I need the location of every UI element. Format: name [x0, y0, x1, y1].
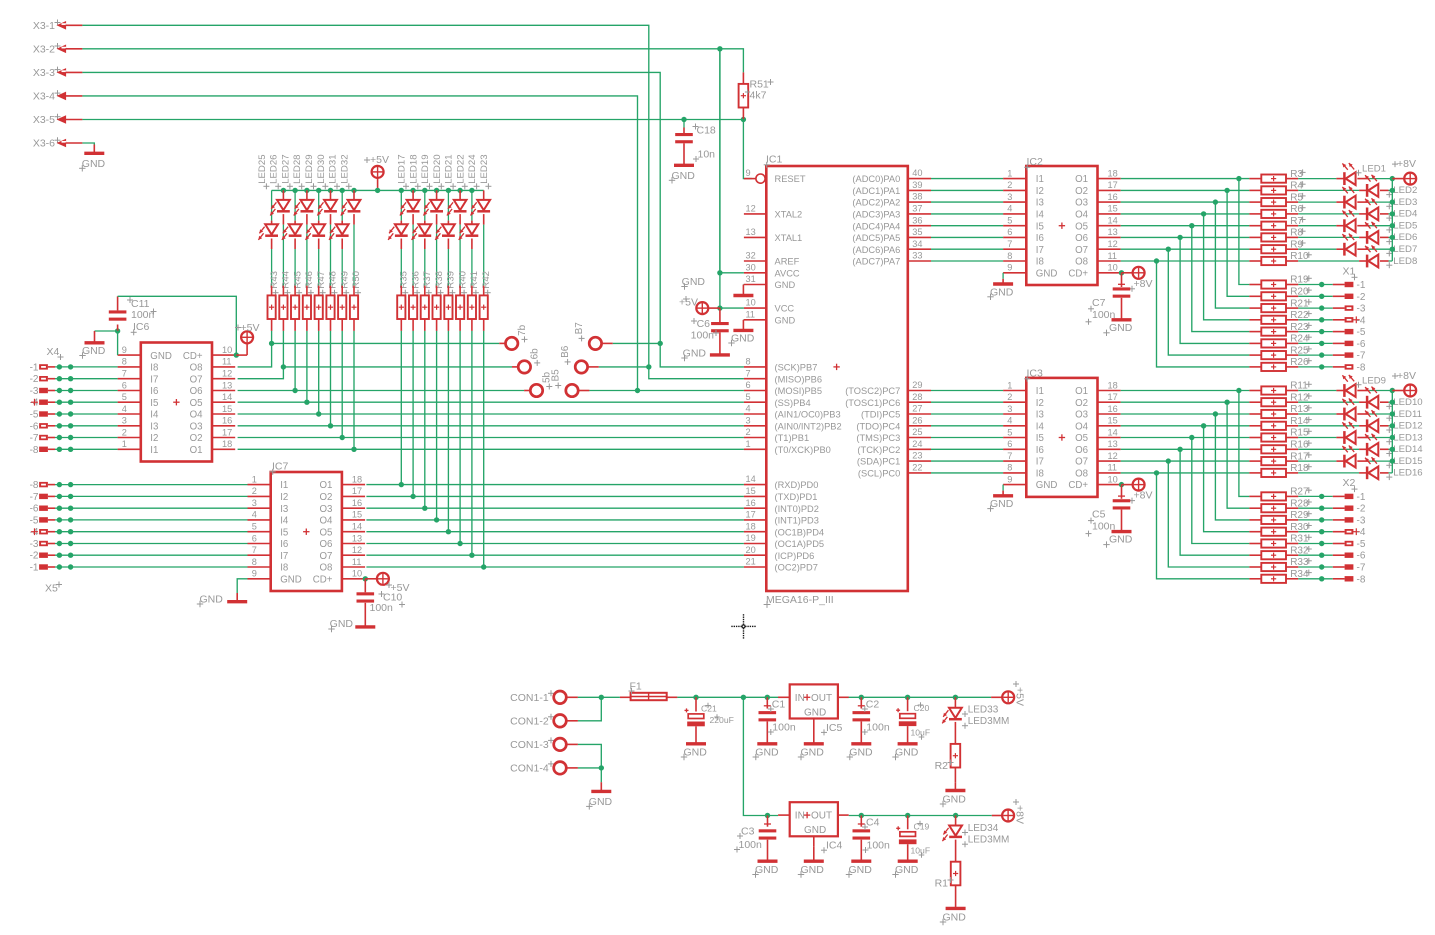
svg-text:-8: -8: [1357, 574, 1366, 585]
svg-text:100n: 100n: [739, 839, 763, 851]
resistor R5: [1249, 192, 1305, 206]
wire R47 down: [318, 331, 320, 414]
wire net IC7 O7/PD6: [366, 554, 744, 556]
svg-text:R42: R42: [481, 271, 492, 289]
wire 6b pad wire: [283, 366, 512, 368]
svg-text:GND: GND: [775, 280, 796, 290]
svg-text:-2: -2: [30, 551, 39, 562]
svg-text:4: 4: [746, 404, 751, 414]
label LED15: [1386, 456, 1422, 468]
svg-text:100n: 100n: [772, 722, 796, 734]
capacitor C21 220uF: [685, 697, 734, 744]
svg-text:IC1: IC1: [766, 154, 783, 166]
svg-text:B5: B5: [551, 369, 562, 382]
svg-text:X3-5: X3-5: [33, 114, 55, 126]
label LED12: [1386, 421, 1422, 433]
ground IC5: [798, 729, 824, 760]
connector pin X4-1: [30, 362, 118, 373]
wire net PA3: [931, 213, 1003, 215]
junction O4 drop: [1201, 211, 1206, 216]
LED LED31: [329, 190, 349, 240]
svg-text:18: 18: [1108, 380, 1118, 390]
svg-text:14: 14: [746, 474, 756, 484]
wire wire O2 to R28: [1227, 402, 1249, 508]
svg-text:C7: C7: [1092, 297, 1106, 309]
svg-text:LED3MM: LED3MM: [968, 835, 1010, 846]
wire net O2/PB1: [238, 437, 744, 439]
svg-text:OUT: OUT: [811, 693, 832, 704]
svg-text:I4: I4: [150, 410, 159, 421]
svg-text:O3: O3: [190, 421, 203, 432]
junction bus LED32: [351, 188, 356, 193]
capacitor C3 100n: [734, 816, 776, 862]
wire LED11 anode: [1357, 413, 1392, 415]
svg-text:O4: O4: [1075, 210, 1089, 221]
label R36: [410, 271, 421, 296]
wire X3-2 to R51: [720, 49, 744, 73]
svg-text:7: 7: [122, 369, 127, 379]
wire net IC7 O5/PD4: [366, 531, 744, 533]
+8V supply output: [992, 799, 1026, 824]
LED LED4: [1365, 198, 1378, 220]
wire R13 to LED11: [1286, 413, 1344, 415]
svg-text:27: 27: [912, 404, 922, 414]
label LED28: [292, 154, 305, 189]
svg-text:(ADC7)PA7: (ADC7)PA7: [852, 257, 900, 267]
svg-text:I1: I1: [1036, 386, 1044, 397]
wire net O5 to R15: [1121, 437, 1250, 439]
wire R4 to LED2: [1286, 189, 1367, 191]
junction bus LED20: [434, 188, 439, 193]
svg-text:8: 8: [1007, 463, 1012, 473]
+5V supply VCC: [679, 296, 720, 314]
svg-text:O7: O7: [319, 551, 332, 562]
+8V supply C5: [1122, 479, 1153, 504]
wire LED13 anode: [1357, 437, 1392, 439]
LED LED11: [1342, 398, 1355, 420]
wire R49 down: [341, 331, 343, 438]
label LED21: [444, 154, 457, 189]
svg-text:X4: X4: [47, 346, 60, 358]
label LED17: [397, 154, 410, 189]
svg-text:CD+: CD+: [1068, 268, 1088, 279]
svg-text:I6: I6: [1036, 445, 1044, 456]
capacitor C5 100n: [1086, 485, 1131, 537]
junction O5 drop: [1189, 435, 1194, 440]
label LED4: [1386, 209, 1418, 221]
jumper pad 6b: [512, 348, 541, 373]
connector pin X3-5: [33, 114, 83, 126]
label LED5: [1386, 221, 1417, 233]
svg-text:14: 14: [222, 392, 232, 402]
svg-text:16: 16: [1108, 404, 1118, 414]
svg-text:7: 7: [252, 545, 257, 555]
LED LED25: [258, 190, 278, 240]
svg-text:-7: -7: [30, 492, 39, 503]
svg-text:O2: O2: [1075, 186, 1088, 197]
svg-text:IC3: IC3: [1027, 368, 1044, 380]
label R47: [316, 271, 327, 296]
resistor R12: [1249, 392, 1311, 406]
junction bus: [1390, 400, 1395, 405]
connector pin CON1-2: [510, 714, 578, 728]
svg-text:+8V: +8V: [1397, 370, 1416, 382]
svg-text:-6: -6: [30, 421, 39, 432]
connector pin CON1-3: [510, 737, 578, 751]
svg-text:18: 18: [1108, 168, 1118, 178]
LED LED27: [282, 190, 302, 240]
junction C11/GND: [115, 328, 120, 333]
svg-text:26: 26: [912, 415, 922, 425]
svg-text:(SCL)PC0: (SCL)PC0: [858, 469, 900, 479]
svg-text:O1: O1: [190, 445, 203, 456]
wire net O4/PB3: [238, 413, 744, 415]
wire R43 to IC6 O8: [238, 331, 272, 367]
LED LED8: [1365, 245, 1378, 267]
svg-text:IN: IN: [795, 693, 805, 704]
LED LED18: [400, 190, 420, 215]
svg-text:O5: O5: [319, 527, 332, 538]
svg-text:8: 8: [746, 357, 751, 367]
svg-text:15: 15: [1108, 416, 1118, 426]
junction +5V stem: [375, 188, 380, 193]
svg-text:10: 10: [1108, 474, 1118, 484]
svg-text:17: 17: [746, 510, 756, 520]
wire LED6 anode: [1380, 236, 1392, 238]
wire net PC4: [931, 425, 1003, 427]
svg-text:5: 5: [1007, 427, 1012, 437]
svg-text:(AIN1/OC0)PB3: (AIN1/OC0)PB3: [775, 410, 841, 420]
wire IC6 pin9 gnd wire: [117, 331, 119, 355]
svg-text:3: 3: [122, 416, 127, 426]
svg-text:100n: 100n: [867, 840, 891, 852]
resistor R31: [1249, 534, 1311, 548]
ground C3: [752, 861, 778, 878]
svg-text:C4: C4: [866, 817, 880, 829]
svg-text:12: 12: [352, 545, 362, 555]
svg-text:13: 13: [352, 533, 362, 543]
wire net O2 to R12: [1121, 401, 1250, 403]
svg-text:AREF: AREF: [775, 257, 800, 267]
label R50: [351, 271, 362, 296]
junction R35: [399, 482, 404, 487]
svg-text:+5V: +5V: [679, 297, 698, 309]
svg-text:-3: -3: [1357, 304, 1366, 315]
svg-text:6: 6: [746, 380, 751, 390]
wire CON1-3 wire: [578, 744, 601, 782]
svg-text:I3: I3: [150, 421, 158, 432]
wire R17 to LED15: [1286, 460, 1344, 462]
svg-text:(TOSC2)PC7: (TOSC2)PC7: [845, 386, 900, 396]
LED LED1: [1342, 163, 1355, 185]
resistor R10: [1249, 251, 1311, 265]
junction O7 drop: [1166, 458, 1171, 463]
svg-text:LED1: LED1: [1362, 163, 1386, 174]
svg-text:(TDO)PC4: (TDO)PC4: [856, 421, 900, 431]
svg-text:16: 16: [746, 498, 756, 508]
junction O3 drop: [1213, 199, 1218, 204]
resistor R36: [409, 286, 417, 331]
svg-text:29: 29: [912, 380, 922, 390]
svg-text:+8V: +8V: [1014, 805, 1026, 824]
label R46: [304, 271, 315, 296]
label R48: [328, 271, 339, 296]
junction CD+ C7: [1119, 270, 1124, 275]
LED LED13: [1342, 422, 1355, 444]
svg-text:LED10: LED10: [1393, 397, 1422, 408]
svg-text:9: 9: [1007, 474, 1012, 484]
wire R9 to LED7: [1286, 248, 1344, 250]
wire LED5 anode: [1357, 225, 1392, 227]
svg-text:(OC1B)PD4: (OC1B)PD4: [775, 527, 825, 537]
svg-text:LED7: LED7: [1393, 244, 1417, 255]
wire B6 to PB6: [649, 367, 744, 379]
svg-text:LED17: LED17: [397, 154, 408, 183]
connector pin X5-8: [30, 480, 248, 491]
label IC3: [1024, 368, 1043, 382]
IC IC3 pins: [1003, 380, 1121, 491]
wire X3-2 to AVCC node: [82, 48, 720, 50]
+5V supply IC6: [235, 322, 259, 355]
wire wire O5 to R23: [1192, 226, 1250, 332]
svg-text:R1: R1: [935, 878, 949, 890]
svg-text:CD+: CD+: [1068, 480, 1088, 491]
junction IC6 CD+: [234, 352, 239, 357]
svg-text:100n: 100n: [131, 309, 155, 321]
svg-text:I8: I8: [1036, 257, 1044, 268]
LED LED29: [306, 190, 326, 240]
LED LED17: [388, 190, 408, 240]
svg-text:1: 1: [1007, 380, 1012, 390]
junction bus LED28: [304, 188, 309, 193]
svg-text:32: 32: [746, 251, 756, 261]
junction rail1: [953, 695, 958, 700]
svg-text:GND: GND: [1109, 534, 1133, 546]
svg-text:LED3: LED3: [1393, 197, 1417, 208]
wire LED9 anode: [1357, 390, 1392, 392]
svg-text:O1: O1: [1075, 174, 1088, 185]
ground GND31: [681, 276, 753, 296]
junction 6b tap: [281, 364, 286, 369]
wire net IC7 O2/PD1: [366, 495, 744, 497]
resistor R24: [1249, 334, 1311, 348]
wire CON1-2 wire: [578, 697, 601, 721]
junction C18 tap: [681, 117, 686, 122]
wire R39 down: [447, 331, 449, 532]
wire B7 wire: [613, 342, 660, 344]
svg-text:CON1-4: CON1-4: [510, 763, 549, 775]
IC IC1 right pins: [845, 168, 931, 478]
ground C2: [847, 744, 873, 760]
jumper pad B5: [551, 369, 590, 397]
svg-text:+8V: +8V: [1134, 490, 1153, 502]
wire R18 to LED16: [1286, 472, 1367, 474]
svg-text:14: 14: [1108, 427, 1118, 437]
ground IC4: [798, 847, 824, 878]
junction AVCC: [717, 270, 722, 275]
label LED2: [1386, 185, 1417, 197]
label LED10: [1386, 397, 1422, 409]
junction O1 drop: [1236, 176, 1241, 181]
svg-text:R46: R46: [304, 271, 315, 289]
svg-text:(T1)PB1: (T1)PB1: [775, 433, 810, 443]
label LED31: [328, 154, 341, 189]
junction bus: [1390, 247, 1395, 252]
ground C19: [892, 861, 918, 878]
connector pin X3-2: [33, 43, 83, 55]
svg-text:-2: -2: [30, 374, 39, 385]
svg-text:10: 10: [222, 345, 232, 355]
svg-text:4: 4: [122, 404, 127, 414]
wire wire O1 to R19: [1239, 179, 1250, 285]
svg-text:XTAL1: XTAL1: [775, 233, 803, 243]
IC IC1 MEGA16 body: [766, 166, 908, 591]
svg-text:GND: GND: [330, 618, 354, 630]
svg-text:1: 1: [252, 474, 257, 484]
svg-text:220uF: 220uF: [710, 715, 734, 725]
svg-text:-5: -5: [30, 410, 39, 421]
svg-text:LED34: LED34: [968, 823, 999, 834]
ground C7: [1103, 320, 1132, 336]
wire LED22 cathode: [459, 214, 461, 286]
LED LED33: [942, 697, 1009, 728]
wire net O1 to R3: [1121, 178, 1250, 180]
junction bus: [1390, 199, 1395, 204]
LED LED7: [1342, 234, 1355, 256]
svg-text:2: 2: [252, 486, 257, 496]
junction bus: [1390, 388, 1395, 393]
IC IC7 pins: [248, 474, 366, 585]
svg-text:LED4: LED4: [1393, 209, 1418, 220]
resistor R22: [1249, 310, 1311, 324]
junction rail1: [905, 695, 910, 700]
svg-text:+5V: +5V: [370, 154, 389, 166]
label IC4: [821, 840, 843, 854]
svg-text:(TXD)PD1: (TXD)PD1: [775, 492, 818, 502]
svg-text:R38: R38: [434, 271, 445, 289]
connector pin X4-7: [30, 433, 118, 444]
label LED13: [1386, 432, 1422, 444]
resistor R33: [1249, 557, 1311, 571]
LED LED22: [447, 190, 467, 215]
svg-text:2: 2: [746, 427, 751, 437]
svg-text:-3: -3: [30, 539, 39, 550]
label R38: [434, 271, 445, 296]
resistor R32: [1249, 545, 1311, 559]
svg-text:100n: 100n: [866, 722, 890, 734]
svg-text:-3: -3: [30, 386, 39, 397]
resistor R2: [935, 722, 961, 783]
ground C6: [681, 348, 730, 362]
svg-text:8: 8: [252, 557, 257, 567]
svg-text:I5: I5: [1036, 433, 1044, 444]
svg-text:-7: -7: [30, 433, 39, 444]
svg-text:(TMS)PC3: (TMS)PC3: [856, 433, 900, 443]
svg-text:-8: -8: [1357, 362, 1366, 373]
junction R48: [328, 423, 333, 428]
junction R46: [304, 400, 309, 405]
label LED1: [1356, 163, 1387, 175]
svg-text:RESET: RESET: [775, 174, 806, 184]
svg-text:IC6: IC6: [133, 321, 150, 333]
resistor R29: [1249, 510, 1311, 524]
connector pin X4-4: [30, 398, 118, 409]
wire net PC1: [931, 460, 1003, 462]
svg-text:-1: -1: [1357, 492, 1366, 503]
svg-text:O3: O3: [1075, 410, 1088, 421]
svg-text:(INT0)PD2: (INT0)PD2: [775, 504, 819, 514]
wire LED20 cathode: [436, 214, 438, 286]
svg-text:(ADC6)PA6: (ADC6)PA6: [852, 245, 900, 255]
svg-text:O4: O4: [1075, 421, 1089, 432]
svg-text:LED26: LED26: [269, 154, 280, 183]
svg-text:(AIN0/INT2)PB2: (AIN0/INT2)PB2: [775, 421, 842, 431]
wire LED10 anode: [1380, 401, 1392, 403]
wire wire O1 to R27: [1239, 391, 1250, 497]
junction 7b tap: [269, 341, 274, 346]
svg-text:LED21: LED21: [444, 154, 455, 183]
svg-text:R41: R41: [469, 271, 480, 289]
svg-text:I5: I5: [150, 398, 158, 409]
junction bus: [1390, 423, 1395, 428]
wire LED7 anode: [1357, 248, 1392, 250]
svg-text:LED29: LED29: [304, 154, 315, 183]
svg-text:18: 18: [746, 521, 756, 531]
junction R42: [481, 564, 486, 569]
svg-text:9: 9: [746, 168, 751, 178]
connector pin X5-6: [30, 504, 248, 515]
resistor R38: [433, 286, 441, 331]
svg-text:O8: O8: [1075, 257, 1088, 268]
svg-text:(MOSI)PB5: (MOSI)PB5: [775, 386, 823, 396]
ground C4: [846, 861, 872, 878]
wire X3-4 to B5 node: [82, 96, 637, 391]
svg-text:I8: I8: [150, 363, 158, 374]
svg-text:-8: -8: [30, 480, 39, 491]
svg-text:-1: -1: [30, 563, 39, 574]
svg-text:GND: GND: [1036, 268, 1058, 279]
resistor R30: [1249, 522, 1311, 536]
svg-text:O1: O1: [1075, 386, 1088, 397]
ground X3-6: [79, 145, 105, 172]
resistor R25: [1249, 345, 1311, 359]
+8V supply bank: [1392, 370, 1416, 397]
wire LED2 anode: [1380, 189, 1392, 191]
wire +5V vertical: [719, 273, 721, 308]
junction bus LED21: [446, 188, 451, 193]
wire R35 down: [400, 331, 402, 485]
svg-text:21: 21: [746, 557, 756, 567]
svg-text:LED8: LED8: [1393, 256, 1417, 267]
svg-text:10: 10: [746, 298, 756, 308]
jumper pad 7b: [499, 324, 528, 349]
svg-text:10: 10: [1108, 263, 1118, 273]
svg-text:6: 6: [1007, 227, 1012, 237]
wire R44 to IC6 O7: [238, 331, 284, 379]
svg-text:O2: O2: [190, 433, 203, 444]
svg-text:(OC1A)PD5: (OC1A)PD5: [775, 539, 825, 549]
svg-text:GND: GND: [1036, 480, 1058, 491]
wire R11 to LED9: [1286, 390, 1344, 392]
svg-text:25: 25: [912, 427, 922, 437]
svg-text:2: 2: [122, 427, 127, 437]
label R41: [469, 271, 480, 296]
label R42: [481, 271, 492, 296]
svg-text:9: 9: [122, 345, 127, 355]
connector pin X4-2: [30, 374, 118, 385]
svg-text:LED15: LED15: [1393, 456, 1422, 467]
LED LED32: [341, 190, 361, 215]
